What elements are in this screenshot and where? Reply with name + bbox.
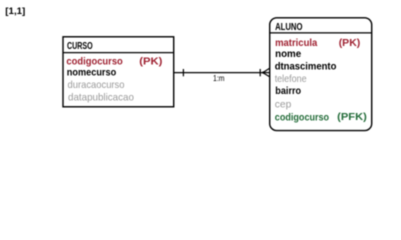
- entity CURSO title separator: [63, 52, 174, 54]
- svg-text:[1,1]: [1,1]: [5, 6, 25, 16]
- svg-text:(PK): (PK): [339, 37, 361, 49]
- entity CURSO box: [63, 37, 174, 107]
- svg-text:(PK): (PK): [139, 56, 162, 68]
- crow's foot apex dot: [262, 71, 264, 73]
- cardinality tick (one side): [182, 69, 184, 76]
- wire relationship line CURSO-ALUNO: [174, 72, 263, 74]
- svg-text:duracaocurso: duracaocurso: [68, 79, 125, 91]
- cardinality tick (many side): [259, 69, 261, 76]
- svg-text:ALUNO: ALUNO: [275, 21, 302, 33]
- svg-text:codigocurso: codigocurso: [66, 55, 122, 67]
- svg-text:codigocurso: codigocurso: [275, 111, 329, 123]
- svg-text:CURSO: CURSO: [67, 40, 93, 52]
- svg-text:telefone: telefone: [275, 73, 307, 85]
- svg-text:dtnascimento: dtnascimento: [275, 60, 337, 72]
- entity ALUNO title separator: [270, 32, 372, 34]
- svg-text:datapublicacao: datapublicacao: [68, 91, 134, 103]
- entity ALUNO box (rounded): [270, 18, 372, 131]
- svg-text:nome: nome: [275, 48, 301, 60]
- svg-text:1:m: 1:m: [213, 73, 225, 83]
- svg-text:nomecurso: nomecurso: [67, 67, 116, 79]
- svg-text:bairro: bairro: [275, 85, 301, 97]
- svg-text:matricula: matricula: [275, 37, 317, 49]
- crow's foot (many side): [263, 68, 270, 72]
- svg-text:cep: cep: [275, 99, 292, 111]
- svg-text:(PFK): (PFK): [337, 111, 367, 123]
